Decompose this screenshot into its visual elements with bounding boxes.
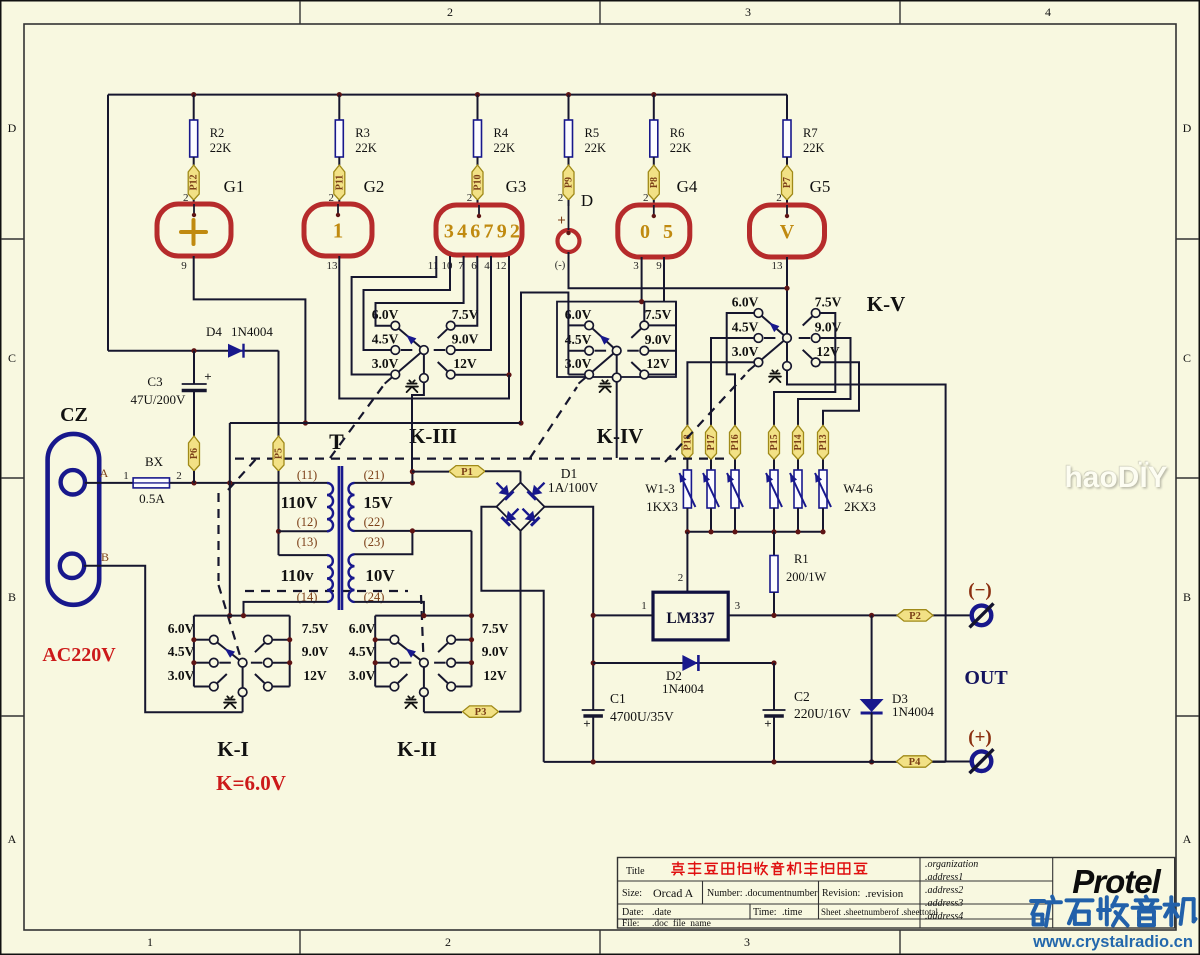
svg-text:7.5V: 7.5V	[645, 307, 672, 322]
svg-text:R6: R6	[670, 126, 685, 140]
svg-text:(12): (12)	[297, 515, 318, 529]
svg-text:K=6.0V: K=6.0V	[216, 771, 286, 795]
svg-text:D: D	[8, 121, 17, 135]
svg-text:Sheet .sheetnumberof .sheettot: Sheet .sheetnumberof .sheettotal	[821, 907, 938, 917]
svg-text:3: 3	[735, 600, 741, 612]
svg-text:B: B	[101, 550, 109, 564]
svg-text:C: C	[8, 351, 16, 365]
svg-text:R4: R4	[494, 126, 509, 140]
svg-text:2: 2	[176, 470, 182, 482]
svg-text:1: 1	[147, 935, 153, 949]
svg-text:2: 2	[643, 192, 649, 204]
svg-text:+: +	[583, 716, 590, 731]
svg-text:P14: P14	[793, 434, 804, 450]
svg-text:+: +	[557, 213, 566, 229]
svg-text:P13: P13	[818, 434, 829, 450]
svg-text:22K: 22K	[355, 141, 377, 155]
svg-text:1A/100V: 1A/100V	[548, 480, 599, 495]
svg-text:4.5V: 4.5V	[349, 644, 376, 659]
svg-text:2: 2	[467, 192, 473, 204]
svg-text:K-I: K-I	[217, 737, 249, 761]
svg-text:15V: 15V	[363, 493, 393, 512]
svg-text:.organization: .organization	[925, 859, 978, 870]
svg-text:0.5A: 0.5A	[139, 491, 165, 506]
svg-text:1: 1	[333, 219, 344, 243]
svg-text:P9: P9	[564, 177, 575, 188]
svg-text:P2: P2	[909, 611, 921, 622]
svg-text:12V: 12V	[646, 356, 670, 371]
svg-text:V: V	[780, 221, 795, 243]
svg-text:K-III: K-III	[409, 424, 457, 448]
svg-text:(−): (−)	[968, 580, 991, 601]
svg-text:10V: 10V	[365, 566, 395, 585]
svg-text:10: 10	[442, 260, 454, 272]
svg-text:P15: P15	[769, 434, 780, 450]
svg-text:File:: File:	[622, 919, 639, 929]
svg-text:3: 3	[744, 935, 750, 949]
svg-text:.doc file name: .doc file name	[652, 918, 711, 929]
svg-text:AC220V: AC220V	[42, 644, 116, 666]
svg-text:4.5V: 4.5V	[168, 644, 195, 659]
svg-text:P11: P11	[334, 175, 345, 191]
svg-text:.address1: .address1	[925, 872, 963, 883]
svg-text:Title: Title	[626, 866, 645, 877]
svg-text:22K: 22K	[210, 141, 232, 155]
svg-text:A: A	[1183, 832, 1192, 846]
svg-text:Size:: Size:	[622, 888, 642, 899]
svg-text:12: 12	[496, 260, 507, 272]
svg-text:4.5V: 4.5V	[372, 332, 399, 347]
svg-text:P16: P16	[730, 434, 741, 450]
svg-text:R7: R7	[803, 126, 818, 140]
svg-text:1N4004: 1N4004	[662, 681, 704, 696]
svg-text:13: 13	[772, 260, 784, 272]
svg-text:R3: R3	[355, 126, 370, 140]
svg-text:W1-3: W1-3	[645, 481, 675, 496]
svg-text:3.0V: 3.0V	[732, 344, 759, 359]
svg-text:5: 5	[663, 221, 673, 243]
svg-text:110V: 110V	[281, 493, 319, 512]
svg-text:3.0V: 3.0V	[168, 668, 195, 683]
svg-text:P5: P5	[274, 448, 285, 459]
svg-text:12V: 12V	[816, 344, 840, 359]
svg-text:C3: C3	[147, 374, 162, 389]
svg-text:A: A	[8, 832, 17, 846]
svg-text:D4: D4	[206, 324, 222, 339]
svg-text:(+): (+)	[968, 727, 991, 748]
svg-text:12V: 12V	[483, 668, 507, 683]
svg-text:G5: G5	[810, 177, 831, 196]
svg-text:P12: P12	[189, 174, 200, 190]
svg-text:9: 9	[656, 260, 662, 272]
svg-text:4700U/35V: 4700U/35V	[610, 709, 674, 724]
svg-text:9.0V: 9.0V	[482, 644, 509, 659]
svg-text:22K: 22K	[803, 141, 825, 155]
svg-text:2: 2	[447, 5, 453, 19]
svg-text:P4: P4	[909, 757, 921, 768]
svg-text:.address2: .address2	[925, 885, 963, 896]
svg-text:.time: .time	[782, 907, 803, 918]
svg-text:W4-6: W4-6	[843, 481, 873, 496]
svg-text:K-IV: K-IV	[597, 424, 644, 448]
svg-text:3.0V: 3.0V	[372, 356, 399, 371]
svg-text:.address4: .address4	[925, 911, 963, 922]
svg-text:4: 4	[484, 260, 490, 272]
svg-text:OUT: OUT	[964, 667, 1008, 689]
svg-text:.documentnumber: .documentnumber	[745, 888, 818, 899]
svg-text:Number:: Number:	[707, 888, 743, 899]
svg-text:9.0V: 9.0V	[302, 644, 329, 659]
svg-text:Date:: Date:	[622, 907, 644, 918]
svg-text:G4: G4	[677, 177, 698, 196]
svg-text:D: D	[581, 191, 593, 210]
svg-text:.date: .date	[652, 907, 672, 918]
svg-text:346792: 346792	[444, 221, 523, 243]
svg-text:D1: D1	[561, 466, 578, 481]
svg-text:C1: C1	[610, 691, 626, 706]
svg-text:.address3: .address3	[925, 898, 963, 909]
svg-text:P3: P3	[475, 707, 487, 718]
svg-text:LM337: LM337	[666, 610, 714, 627]
svg-text:(13): (13)	[297, 535, 318, 549]
svg-text:BX: BX	[145, 454, 164, 469]
svg-text:6.0V: 6.0V	[732, 295, 759, 310]
svg-text:.revision: .revision	[865, 888, 904, 900]
svg-text:7.5V: 7.5V	[302, 621, 329, 636]
svg-text:22K: 22K	[494, 141, 516, 155]
svg-text:P6: P6	[189, 448, 200, 459]
svg-text:G3: G3	[506, 177, 527, 196]
svg-text:2: 2	[558, 192, 564, 204]
svg-text:www.crystalradio.cn: www.crystalradio.cn	[1032, 933, 1193, 951]
svg-text:D: D	[1183, 121, 1192, 135]
svg-text:K-II: K-II	[397, 737, 437, 761]
svg-text:2: 2	[776, 192, 782, 204]
svg-text:2: 2	[445, 935, 451, 949]
svg-text:3: 3	[745, 5, 751, 19]
svg-text:C2: C2	[794, 689, 810, 704]
svg-text:1KX3: 1KX3	[646, 499, 678, 514]
svg-text:1: 1	[123, 470, 129, 482]
svg-text:22K: 22K	[585, 141, 607, 155]
svg-text:Protel: Protel	[1072, 863, 1161, 900]
svg-text:P1: P1	[461, 467, 473, 478]
svg-text:1: 1	[641, 600, 647, 612]
svg-text:C: C	[1183, 351, 1191, 365]
svg-text:9.0V: 9.0V	[452, 332, 479, 347]
svg-text:12V: 12V	[303, 668, 327, 683]
svg-text:R5: R5	[585, 126, 600, 140]
svg-text:1N4004: 1N4004	[231, 324, 273, 339]
svg-text:3.0V: 3.0V	[349, 668, 376, 683]
svg-text:4: 4	[1045, 5, 1051, 19]
svg-text:Revision:: Revision:	[822, 888, 860, 899]
svg-text:(-): (-)	[555, 260, 566, 271]
svg-text:220U/16V: 220U/16V	[794, 706, 851, 721]
svg-text:(22): (22)	[364, 515, 385, 529]
svg-text:6.0V: 6.0V	[349, 621, 376, 636]
svg-text:47U/200V: 47U/200V	[131, 392, 187, 407]
svg-text:2KX3: 2KX3	[844, 499, 876, 514]
svg-text:6.0V: 6.0V	[168, 621, 195, 636]
svg-text:CZ: CZ	[60, 404, 88, 426]
svg-text:R2: R2	[210, 126, 225, 140]
svg-text:200/1W: 200/1W	[786, 570, 826, 584]
svg-text:R1: R1	[794, 552, 809, 566]
svg-text:(21): (21)	[364, 468, 385, 482]
svg-text:9.0V: 9.0V	[815, 320, 842, 335]
svg-text:haoDЇY: haoDЇY	[1064, 461, 1167, 494]
svg-text:+: +	[764, 716, 771, 731]
svg-text:A: A	[100, 466, 109, 480]
svg-text:4.5V: 4.5V	[732, 320, 759, 335]
svg-text:P17: P17	[706, 434, 717, 450]
svg-text:1N4004: 1N4004	[892, 704, 934, 719]
svg-text:P10: P10	[473, 174, 484, 190]
svg-text:2: 2	[678, 572, 684, 584]
svg-text:7.5V: 7.5V	[482, 621, 509, 636]
svg-text:(23): (23)	[364, 535, 385, 549]
svg-text:P7: P7	[782, 177, 793, 188]
svg-text:0: 0	[640, 221, 650, 243]
svg-text:K-V: K-V	[867, 292, 906, 316]
svg-text:3: 3	[633, 260, 639, 272]
svg-text:G2: G2	[364, 177, 385, 196]
svg-text:(11): (11)	[297, 468, 317, 482]
svg-text:Orcad A: Orcad A	[653, 886, 694, 900]
svg-text:13: 13	[327, 260, 339, 272]
svg-text:+: +	[204, 369, 211, 384]
svg-text:P8: P8	[649, 177, 660, 188]
svg-text:9: 9	[181, 260, 187, 272]
svg-text:110v: 110v	[280, 566, 314, 585]
svg-text:T: T	[329, 429, 344, 454]
svg-text:9.0V: 9.0V	[645, 332, 672, 347]
svg-text:7.5V: 7.5V	[815, 295, 842, 310]
svg-text:12V: 12V	[453, 356, 477, 371]
svg-text:G1: G1	[224, 177, 245, 196]
svg-text:7.5V: 7.5V	[452, 307, 479, 322]
svg-text:B: B	[1183, 590, 1191, 604]
svg-text:Time:: Time:	[753, 907, 777, 918]
svg-text:B: B	[8, 590, 16, 604]
svg-text:22K: 22K	[670, 141, 692, 155]
